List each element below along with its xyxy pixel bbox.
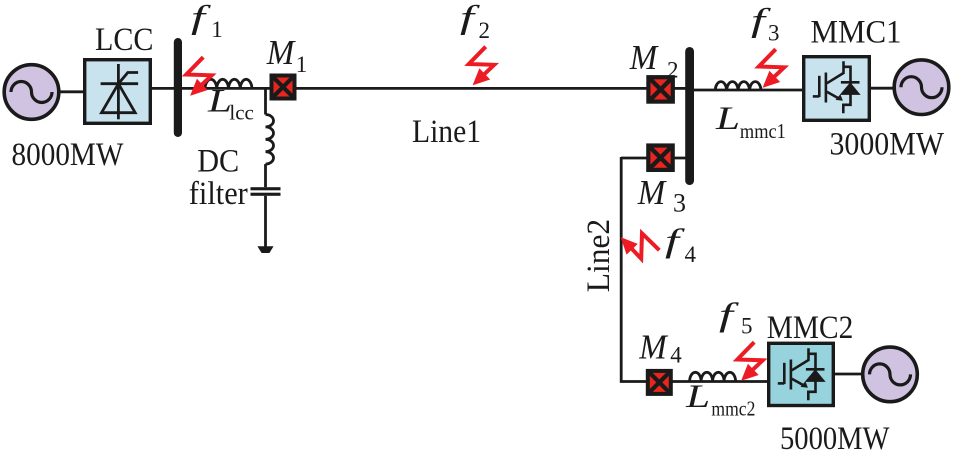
svg-text:MMC1: MMC1 <box>811 15 902 51</box>
svg-text:3: 3 <box>768 20 780 45</box>
svg-text:MMC2: MMC2 <box>767 310 854 346</box>
svg-text:M: M <box>637 173 667 212</box>
svg-text:2: 2 <box>667 58 679 83</box>
svg-text:M: M <box>629 38 659 77</box>
svg-text:5000MW: 5000MW <box>780 421 890 454</box>
svg-text:3000MW: 3000MW <box>830 126 945 162</box>
svg-text:M: M <box>638 327 668 366</box>
svg-text:L: L <box>685 379 710 415</box>
svg-text:f: f <box>665 223 685 259</box>
svg-text:mmc1: mmc1 <box>740 119 786 143</box>
svg-text:5: 5 <box>741 314 753 339</box>
svg-text:L: L <box>715 101 740 137</box>
svg-text:Line1: Line1 <box>412 114 481 150</box>
svg-text:Line2: Line2 <box>581 219 617 293</box>
svg-text:4: 4 <box>670 343 682 368</box>
svg-text:4: 4 <box>685 242 697 267</box>
svg-text:LCC: LCC <box>95 22 154 58</box>
svg-text:3: 3 <box>673 189 686 218</box>
svg-text:1: 1 <box>211 17 223 42</box>
svg-text:mmc2: mmc2 <box>711 397 755 421</box>
svg-text:DC: DC <box>197 143 239 179</box>
svg-text:lcc: lcc <box>229 101 254 125</box>
svg-text:1: 1 <box>296 52 308 77</box>
svg-text:L: L <box>207 84 232 120</box>
svg-text:2: 2 <box>479 18 491 43</box>
svg-text:filter: filter <box>189 176 248 212</box>
svg-text:8000MW: 8000MW <box>12 137 125 173</box>
svg-text:f: f <box>719 297 739 333</box>
svg-text:M: M <box>266 33 296 72</box>
svg-text:f: f <box>191 0 211 36</box>
svg-text:f: f <box>460 0 480 36</box>
